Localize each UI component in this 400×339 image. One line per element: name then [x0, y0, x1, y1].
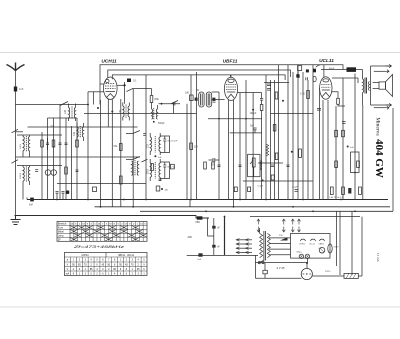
- resistor R1: [41, 140, 44, 147]
- junction dot J1: [123, 84, 125, 86]
- power transformer: [260, 228, 271, 261]
- capacitor C36 on 255 wire: [198, 253, 202, 256]
- junction dot det: [252, 109, 254, 111]
- capacitor C37: [271, 165, 274, 167]
- T3b resonant loop: [160, 162, 175, 179]
- svg-text:Kurz: Kurz: [58, 227, 64, 230]
- capacitor C22: [342, 122, 346, 124]
- capacitor C2: [46, 138, 49, 150]
- grid cap wire: [88, 91, 104, 93]
- switch S8: [142, 159, 148, 162]
- heater rails: [269, 238, 290, 255]
- capacitor C3: [59, 143, 62, 145]
- tube2 bottom wires: [228, 100, 230, 200]
- resistor R21: [151, 164, 154, 171]
- bottom wire: [187, 254, 258, 256]
- capacitor C21: [317, 109, 321, 111]
- bottom bus 2: [95, 206, 391, 208]
- wire input row: [16, 104, 89, 106]
- wire row3: [16, 156, 141, 158]
- caps row top right: [296, 65, 335, 82]
- resistor R17 68ohm on wire: [197, 216, 203, 219]
- junction dot mains: [306, 262, 308, 264]
- svg-text:5nF: 5nF: [350, 147, 354, 149]
- vertical pair right of T3: [186, 104, 188, 200]
- top bus 1: [100, 65, 343, 105]
- heater arrow pairs: [257, 219, 301, 232]
- svg-text:-AV: -AV: [165, 189, 169, 192]
- bus junction dots: [56, 199, 356, 218]
- bus link: [189, 200, 191, 207]
- filter bottom rail: [57, 183, 146, 185]
- resistor R3: [76, 140, 79, 147]
- svg-text:Zf=473+468kHz: Zf=473+468kHz: [72, 245, 124, 249]
- osc coil T2: [152, 103, 166, 125]
- junction dot AF2: [291, 151, 293, 153]
- svg-text:80k: 80k: [155, 97, 160, 101]
- wires T5: [197, 89, 199, 91]
- resistor R24: [273, 125, 276, 132]
- svg-text:0.1μF: 0.1μF: [258, 186, 264, 188]
- capacitor C23 blob: [212, 226, 215, 229]
- output stage wires: [332, 77, 358, 79]
- capacitor ant series: [14, 87, 17, 92]
- AF coupling wire: [258, 162, 283, 164]
- section verticals mid-right: [265, 75, 267, 200]
- coil block A: [64, 104, 76, 122]
- bottom bus 3: [140, 210, 393, 212]
- coil block C: [119, 103, 129, 121]
- wire band row: [159, 103, 181, 105]
- svg-text:40nF: 40nF: [329, 68, 335, 71]
- phono jacks: [45, 170, 51, 176]
- tone loop: [351, 152, 360, 173]
- wire osc: [133, 88, 151, 90]
- svg-text:100: 100: [64, 109, 67, 114]
- bottom power wires: [255, 262, 307, 264]
- wire row2: [16, 131, 24, 133]
- capacitor C10: [173, 102, 175, 106]
- svg-text:mA: mA: [66, 272, 70, 275]
- svg-text:ZF: ZF: [58, 238, 62, 241]
- svg-text:UCH11: UCH11: [101, 59, 117, 65]
- resistor R7 68k: [120, 144, 123, 151]
- svg-text:6nF: 6nF: [29, 204, 34, 207]
- left filter verticals: [41, 132, 43, 200]
- capacitor C9 black: [127, 79, 131, 83]
- capacitor C38: [287, 165, 290, 167]
- resistor R16: [357, 161, 360, 168]
- filter rails: [17, 134, 62, 136]
- IF transformer T4: [132, 160, 139, 176]
- svg-text:UCL11: UCL11: [319, 58, 334, 64]
- resistor R23 dark: [299, 149, 302, 158]
- right edge wire: [392, 108, 394, 211]
- svg-text:80 22.5nF: 80 22.5nF: [168, 141, 179, 143]
- svg-text:1001: 1001: [20, 143, 22, 149]
- svg-text:0.15: 0.15: [300, 93, 305, 96]
- lamp 3: [319, 247, 325, 253]
- junction dot J6: [111, 111, 113, 113]
- capacitor C25: [263, 270, 267, 274]
- capacitor C6: [35, 170, 38, 172]
- tube U2 UBF11: [224, 77, 237, 100]
- bottom bus 5: [250, 216, 360, 218]
- svg-text:6nF: 6nF: [198, 259, 202, 261]
- resistor R22: [120, 176, 123, 184]
- capacitor C33: [159, 179, 162, 181]
- capacitor C16 50: [209, 158, 220, 167]
- antenna: [7, 63, 25, 72]
- capacitor C42: [271, 175, 274, 180]
- resistor R15: [335, 161, 338, 168]
- junction dot J4: [87, 104, 89, 106]
- TA block: [171, 164, 175, 169]
- junction dot AF: [262, 179, 264, 181]
- switch S2: [12, 129, 19, 133]
- diode load wire: [208, 118, 262, 120]
- svg-text:500pF: 500pF: [158, 123, 165, 125]
- ground: [11, 216, 21, 225]
- switch S6: [133, 131, 140, 134]
- bottom bus 4: [15, 216, 210, 219]
- switch mains: [258, 262, 260, 264]
- page scan edge top: [0, 52, 400, 54]
- vertical drop power: [213, 218, 215, 255]
- motor plug circle: [301, 268, 312, 279]
- mains switch wedge: [280, 237, 288, 240]
- capacitor C24 blob: [212, 245, 215, 248]
- mid verticals: [132, 89, 134, 207]
- table 2: [64, 253, 147, 276]
- resistor R2: [52, 140, 55, 147]
- capacitor C4: [65, 143, 68, 145]
- capacitor C28: [66, 191, 69, 194]
- svg-text:180: 180: [185, 92, 190, 95]
- resistor R9: [260, 105, 263, 111]
- svg-text:Mittel: Mittel: [58, 231, 64, 234]
- resistor R20: [212, 162, 215, 169]
- switch S3: [12, 160, 19, 164]
- tube U3 UCL11: [320, 77, 332, 100]
- capacitor C32: [239, 165, 242, 167]
- output transformer T6: [363, 78, 370, 106]
- resistor R19: [204, 162, 207, 169]
- capacitor C31: [218, 165, 221, 167]
- svg-text:UCH11: UCH11: [299, 244, 305, 246]
- bottom bus 1: [27, 199, 388, 201]
- resistor R26: [275, 153, 278, 160]
- AVC rail: [84, 113, 197, 115]
- resistor R5: [65, 167, 68, 174]
- wire antenna down: [15, 70, 17, 216]
- right power verticals: [336, 211, 338, 266]
- svg-text:404 GW: 404 GW: [373, 139, 385, 178]
- svg-text:Bereich: Bereich: [58, 223, 67, 226]
- capacitor C26: [56, 192, 59, 200]
- resistor R11 0.15: [307, 91, 310, 99]
- capacitor C8 on bus: [30, 198, 34, 202]
- svg-text:WgLa: WgLa: [297, 252, 303, 254]
- svg-text:1M: 1M: [194, 145, 198, 149]
- top bus 3: [112, 75, 285, 80]
- svg-text:0.1: 0.1: [133, 79, 137, 83]
- coil pair L2: [20, 166, 30, 200]
- svg-text:UBF11: UBF11: [223, 59, 238, 65]
- capacitor C29 box: [93, 187, 97, 192]
- det wire: [230, 132, 262, 134]
- IF transformer T3b: [148, 159, 169, 192]
- svg-text:5nF: 5nF: [250, 125, 255, 128]
- coil block B: [73, 123, 84, 141]
- junction dot J5: [97, 107, 99, 109]
- svg-text:2000: 2000: [148, 168, 150, 174]
- AF rail: [243, 180, 313, 182]
- IF transformer T5: [199, 92, 212, 107]
- AVC rail right: [271, 113, 314, 115]
- voltage selector: [236, 239, 252, 254]
- capacitor C17: [213, 101, 216, 103]
- switch S5: [171, 101, 178, 104]
- capacitor C39: [143, 134, 146, 136]
- capacitor C18: [260, 93, 263, 105]
- svg-text:4 V 35: 4 V 35: [276, 266, 285, 270]
- resistor R18 hatched: [344, 273, 358, 278]
- junction dot tone: [347, 146, 349, 148]
- tube3 grid stubs: [323, 65, 325, 77]
- svg-text:Lang: Lang: [58, 234, 64, 237]
- coil pair L1: [20, 135, 30, 157]
- switch S7: [133, 157, 140, 160]
- capacitor C40: [234, 187, 237, 192]
- tube2 top wire: [230, 75, 232, 78]
- heater bumps: [300, 239, 305, 241]
- capacitor C27: [62, 192, 65, 200]
- page scan edge bottom: [0, 306, 400, 308]
- svg-text:UBF11 · UCL11: UBF11 · UCL11: [118, 255, 135, 257]
- capacitor C7: [76, 170, 79, 172]
- svg-text:100: 100: [73, 131, 76, 136]
- speaker: [371, 64, 393, 109]
- svg-text:0.1μF: 0.1μF: [292, 187, 298, 189]
- svg-text:5nF: 5nF: [158, 157, 162, 159]
- svg-text:Minerva: Minerva: [375, 117, 381, 136]
- bottom component row right: [330, 187, 333, 195]
- capacitor C30 box: [156, 186, 160, 191]
- junction dot J2: [161, 103, 163, 105]
- IF transformer T3a: [148, 133, 163, 159]
- table 1: [57, 222, 147, 242]
- switch S4: [127, 88, 134, 91]
- bus branch down: [208, 218, 214, 236]
- svg-text:4nF: 4nF: [51, 125, 55, 127]
- svg-text:UCH11: UCH11: [81, 255, 89, 257]
- tube1 verticals: [100, 100, 102, 207]
- svg-text:68Ω: 68Ω: [196, 221, 201, 224]
- capacitor C20 stack: [267, 84, 271, 90]
- resistor R6 80k: [150, 96, 153, 103]
- electrolytic 25uF: [328, 244, 332, 253]
- resistor R10: [275, 92, 278, 99]
- svg-text:17 mA: 17 mA: [376, 253, 380, 262]
- svg-text:UCL11: UCL11: [309, 244, 315, 246]
- resistor R13: [335, 130, 338, 137]
- pilot lamp 1: [299, 254, 303, 258]
- switch S1: [60, 102, 68, 106]
- svg-text:220V~: 220V~: [325, 271, 332, 273]
- resistor R12 WW: [347, 67, 357, 72]
- svg-text:10000: 10000: [20, 172, 22, 179]
- right verticals: [319, 88, 321, 200]
- tube U1 UCH11: [104, 77, 118, 99]
- tube2 right wire: [238, 92, 262, 94]
- resistor R14: [342, 130, 345, 137]
- resistor R8 1M: [190, 143, 193, 150]
- capacitor C41: [248, 187, 251, 192]
- svg-text:LW: LW: [319, 248, 322, 250]
- pilot lamp 2: [305, 254, 309, 258]
- volume pot box: [248, 154, 262, 176]
- lamp panel box: [291, 233, 331, 258]
- T3a resonant loop: [160, 136, 178, 153]
- top bus 2: [108, 70, 291, 77]
- wire filter top: [48, 117, 78, 119]
- resistor R25 zigzag: [266, 144, 268, 156]
- svg-text:1nF: 1nF: [19, 87, 24, 91]
- capacitor C11 180: [190, 95, 194, 101]
- svg-text:UBF11: UBF11: [319, 244, 325, 246]
- capacitor C19 5nF: [250, 125, 257, 133]
- wire y82: [264, 82, 289, 84]
